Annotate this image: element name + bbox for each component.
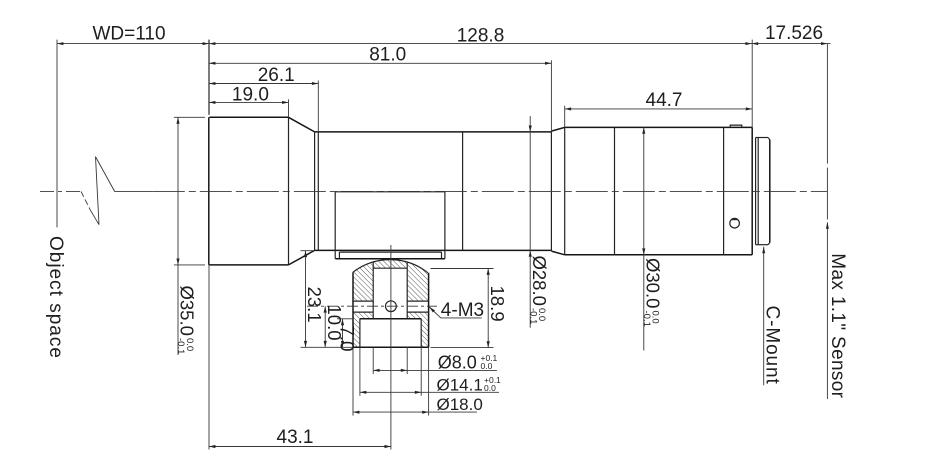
svg-text:Ø14.1: Ø14.1 <box>437 376 483 395</box>
svg-text:18.9: 18.9 <box>487 286 508 322</box>
svg-text:-0.1: -0.1 <box>641 311 652 327</box>
svg-text:C-Mount: C-Mount <box>762 306 783 385</box>
svg-text:Ø30.0: Ø30.0 <box>643 258 664 308</box>
svg-text:0.0: 0.0 <box>484 383 496 393</box>
svg-text:17.526: 17.526 <box>765 23 823 44</box>
svg-text:26.1: 26.1 <box>258 65 295 86</box>
svg-text:Max 1.1" Sensor: Max 1.1" Sensor <box>827 253 848 398</box>
svg-text:-0.1: -0.1 <box>175 338 186 354</box>
svg-text:23.1: 23.1 <box>304 287 325 323</box>
svg-text:128.8: 128.8 <box>457 26 505 47</box>
svg-text:81.0: 81.0 <box>369 45 406 66</box>
svg-text:19.0: 19.0 <box>232 85 269 106</box>
svg-text:7.0: 7.0 <box>335 325 356 351</box>
svg-text:Object space: Object space <box>45 236 66 359</box>
svg-text:0.0: 0.0 <box>481 361 493 371</box>
svg-text:Ø28.0: Ø28.0 <box>529 256 550 306</box>
svg-text:Ø35.0: Ø35.0 <box>177 286 198 336</box>
svg-text:WD=110: WD=110 <box>92 24 165 45</box>
svg-text:44.7: 44.7 <box>646 90 683 111</box>
svg-text:43.1: 43.1 <box>277 427 314 448</box>
svg-text:Ø18.0: Ø18.0 <box>437 395 483 414</box>
svg-text:-0.1: -0.1 <box>527 308 538 324</box>
svg-text:4-M3: 4-M3 <box>441 300 484 321</box>
svg-text:Ø8.0: Ø8.0 <box>438 353 477 373</box>
